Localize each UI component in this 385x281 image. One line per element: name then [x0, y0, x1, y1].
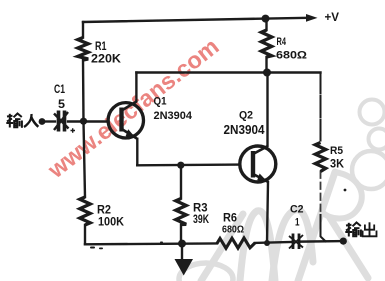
svg-text:R2: R2 [97, 205, 111, 217]
svg-text:5: 5 [58, 99, 66, 111]
svg-text:1: 1 [295, 217, 300, 229]
svg-text:Q1: Q1 [154, 96, 167, 108]
svg-text:Q2: Q2 [239, 110, 253, 122]
svg-text:C1: C1 [54, 84, 65, 96]
svg-text:R3: R3 [193, 203, 208, 215]
svg-text:100K: 100K [98, 217, 125, 229]
svg-text:R4: R4 [277, 36, 287, 48]
svg-text:680Ω: 680Ω [222, 224, 244, 236]
svg-text:R1: R1 [95, 41, 107, 53]
svg-text:R5: R5 [330, 145, 343, 157]
svg-text:680Ω: 680Ω [276, 50, 307, 62]
svg-text:3K: 3K [330, 159, 345, 171]
svg-text:+V: +V [325, 12, 340, 24]
svg-text:2N3904: 2N3904 [154, 110, 193, 122]
svg-text:C2: C2 [290, 204, 304, 216]
svg-text:220K: 220K [91, 54, 122, 66]
svg-text:2N3904: 2N3904 [224, 123, 265, 137]
svg-text:39K: 39K [193, 214, 210, 226]
